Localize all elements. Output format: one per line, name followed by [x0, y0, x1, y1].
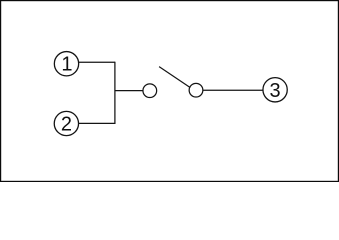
- terminal 1: [54, 52, 78, 76]
- svg-text:2: 2: [61, 114, 72, 136]
- terminal 3: [263, 78, 287, 102]
- wire from throw contact to terminal 3: [203, 89, 263, 91]
- svg-text:3: 3: [270, 80, 281, 102]
- wire from terminal 1 to junction: [79, 61, 115, 63]
- terminal 2: [54, 111, 78, 135]
- wire from terminal 2 to junction: [79, 122, 115, 124]
- wire from junction to common contact: [115, 90, 143, 92]
- svg-text:1: 1: [61, 54, 72, 76]
- switch blade (open): [159, 67, 190, 88]
- switch common contact (left pole): [143, 84, 157, 98]
- switch throw contact (right pole): [189, 83, 203, 97]
- wire junction vertical segment: [114, 62, 116, 124]
